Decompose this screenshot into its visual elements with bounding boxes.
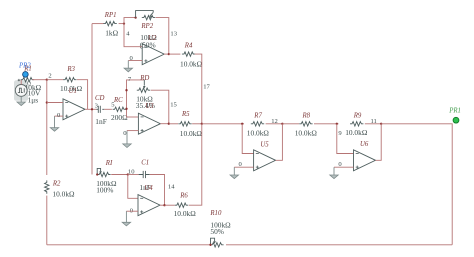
svg-text:R6: R6	[179, 193, 188, 200]
op-amp U1	[63, 99, 85, 120]
svg-text:R8: R8	[302, 112, 311, 119]
wire R9 to node 11	[365, 123, 381, 125]
RD wiper arrow	[143, 80, 145, 86]
resistor R3	[63, 78, 76, 82]
node 4 junction	[123, 22, 125, 24]
op-amp U3	[138, 113, 160, 134]
wire U3 output	[160, 123, 168, 125]
source selection highlight	[14, 80, 28, 101]
wire U5 output feedback	[276, 124, 283, 161]
wire node 2 down to R2	[46, 80, 48, 175]
svg-text:1μs: 1μs	[28, 96, 39, 105]
ground (U5)	[230, 167, 238, 178]
svg-text:U1: U1	[69, 88, 77, 95]
wire CD to RC	[104, 108, 112, 110]
wire to U3 inverting	[127, 116, 139, 118]
node 17 junction	[201, 123, 203, 125]
potentiometer RP2	[142, 15, 155, 19]
resistor R5	[178, 122, 191, 126]
wire node 12 to R8	[282, 123, 299, 125]
svg-text:2: 2	[48, 72, 51, 79]
svg-text:10.0kΩ: 10.0kΩ	[180, 60, 203, 69]
svg-text:10.0kΩ: 10.0kΩ	[295, 128, 318, 137]
wire U2 noninverting	[128, 60, 142, 62]
RI wiper hook	[97, 168, 100, 174]
node 12 junction	[281, 123, 283, 125]
wire R4 down to node 17	[195, 54, 202, 124]
wire RP1/RI tall vertical	[91, 24, 93, 175]
wire RI to node 10	[111, 174, 128, 176]
svg-text:14: 14	[168, 184, 175, 191]
wire R7 to node 12	[266, 123, 283, 125]
node 2 junction	[46, 79, 48, 81]
wire U1 output to CD	[85, 108, 96, 110]
ground (U2)	[124, 61, 132, 72]
ground (U6)	[330, 167, 338, 178]
svg-text:U6: U6	[360, 141, 369, 148]
svg-text:R3: R3	[66, 66, 75, 73]
svg-text:13: 13	[170, 31, 177, 38]
svg-text:R7: R7	[253, 112, 262, 119]
op-amp U6	[354, 150, 376, 171]
junction U4 output node 14	[163, 204, 165, 206]
resistor R1	[21, 78, 34, 82]
resistor R7	[251, 122, 264, 126]
node 10 junction	[127, 173, 129, 175]
wire R3 to U1 output	[77, 80, 88, 110]
wire tap to U5 inverting	[242, 124, 253, 154]
junction U1 inverting input	[46, 101, 48, 103]
potentiometer RI	[97, 172, 110, 176]
svg-text:U3: U3	[145, 103, 154, 110]
svg-text:C1: C1	[141, 159, 149, 166]
svg-text:200Ω: 200Ω	[111, 113, 128, 122]
resistor R6	[175, 203, 188, 207]
wire to R6	[165, 204, 175, 206]
node 11 junction	[380, 123, 382, 125]
junction U3 output	[168, 123, 170, 125]
svg-text:9: 9	[338, 130, 342, 137]
wire node 7 vertical and RD loop top	[127, 80, 145, 117]
wire R6 up to node 17	[189, 124, 202, 205]
capacitor CD	[96, 106, 104, 113]
svg-text:PR2: PR2	[18, 63, 31, 70]
wire U5 noninverting	[234, 166, 253, 168]
wire node 10 to C1	[128, 174, 139, 176]
wire RP1 to node 4	[119, 23, 124, 25]
svg-text:RC: RC	[113, 97, 123, 104]
wire bottom rail left	[47, 244, 210, 246]
resistor R4	[182, 52, 195, 56]
svg-text:R4: R4	[184, 43, 193, 50]
svg-text:R10: R10	[209, 210, 222, 217]
ground (U4)	[122, 211, 130, 226]
RP2 wiper loop	[136, 11, 154, 18]
potentiometer R10	[210, 243, 223, 247]
svg-text:U4: U4	[144, 185, 153, 192]
wire U6 output feedback	[376, 124, 382, 161]
junction U1 output node 3	[91, 108, 93, 110]
svg-text:R5: R5	[181, 111, 190, 118]
svg-text:U5: U5	[260, 141, 269, 148]
wire node 10 to U4 inverting	[128, 175, 138, 199]
junction R10 wiper tie	[209, 244, 211, 246]
svg-text:10.0kΩ: 10.0kΩ	[52, 189, 75, 198]
junction RP2 wiper tie	[134, 16, 136, 18]
wire node 4 to U2 inverting	[124, 24, 142, 47]
wire R5 to node 17	[192, 123, 202, 125]
junction RC to node 7	[125, 108, 127, 110]
wire U3 noninverting	[127, 130, 138, 132]
svg-text:4: 4	[126, 31, 130, 38]
capacitor C1	[139, 171, 150, 178]
junction U5 input tap	[241, 123, 243, 125]
svg-text:CD: CD	[95, 95, 105, 102]
wire node 2 to R3	[47, 79, 64, 81]
wire U4 noninverting	[126, 210, 138, 212]
svg-text:10.0kΩ: 10.0kΩ	[247, 128, 270, 137]
wire tap to U6 inverting	[337, 124, 354, 154]
svg-text:50%: 50%	[210, 227, 224, 236]
op-amp U2	[142, 44, 164, 65]
svg-text:1nF: 1nF	[95, 117, 107, 126]
wire bottom rail right	[226, 244, 452, 246]
svg-text:15: 15	[170, 101, 177, 108]
voltage source V1 (step source circle)	[15, 85, 27, 97]
wire U6 noninverting	[334, 166, 354, 168]
potentiometer RD	[137, 88, 150, 92]
ground (U1)	[50, 116, 58, 131]
svg-text:100%: 100%	[96, 186, 113, 195]
op-amp U4	[138, 195, 160, 216]
resistor R8	[299, 122, 312, 126]
svg-text:PR1: PR1	[448, 108, 461, 115]
wire RD right to node 15	[151, 90, 169, 123]
junction U6 input tap	[336, 123, 338, 125]
svg-text:RI: RI	[105, 160, 113, 167]
wire to R5	[169, 123, 178, 125]
wire R8 to node 9	[314, 123, 339, 125]
svg-text:10.0kΩ: 10.0kΩ	[345, 128, 368, 137]
svg-text:17: 17	[203, 83, 210, 90]
source plus terminal	[18, 79, 20, 81]
wire node4 up to RP2	[124, 18, 136, 24]
wire R1 to node 2	[32, 79, 47, 81]
wire R2 to bottom rail	[46, 196, 48, 245]
wire U2 output	[164, 53, 169, 55]
probe PR2	[23, 72, 29, 78]
probe PR1	[453, 117, 459, 123]
wire C1 to node 14 vertical	[150, 175, 165, 206]
svg-text:1kΩ: 1kΩ	[105, 28, 118, 37]
ground (source)	[17, 96, 25, 105]
resistor RC	[113, 107, 126, 111]
svg-text:11: 11	[371, 118, 377, 125]
resistor R2	[45, 180, 49, 193]
op-amp U5	[254, 150, 276, 171]
svg-text:R2: R2	[52, 181, 61, 188]
svg-text:RP1: RP1	[104, 12, 117, 19]
wire U4 output	[160, 204, 165, 206]
junction RI wiper tie	[96, 173, 98, 175]
wire node13 to R4	[169, 53, 181, 55]
wire to U1 inverting input	[47, 102, 63, 104]
wire RC to RD net	[125, 108, 128, 110]
R10 wiper hook	[211, 238, 215, 245]
resistor RP1	[103, 21, 116, 25]
wire node 11 to PR1 corner and down	[381, 124, 452, 245]
wire source to R1	[20, 80, 22, 85]
svg-text:10.0kΩ: 10.0kΩ	[180, 129, 203, 138]
resistor R9	[350, 122, 363, 126]
wire vertical to RP1	[92, 23, 104, 25]
svg-text:R9: R9	[353, 112, 362, 119]
wire U1 noninverting input	[55, 115, 64, 117]
svg-text:10.0kΩ: 10.0kΩ	[174, 209, 197, 218]
ground (U3)	[123, 131, 131, 148]
junction RD left terminal	[125, 89, 127, 91]
wire node 17 to R7	[202, 123, 244, 125]
svg-text:12: 12	[271, 118, 278, 125]
junction U2 output node 13	[168, 53, 170, 55]
wire RP2 to node 13	[156, 18, 169, 55]
svg-text:RP2: RP2	[140, 23, 153, 30]
